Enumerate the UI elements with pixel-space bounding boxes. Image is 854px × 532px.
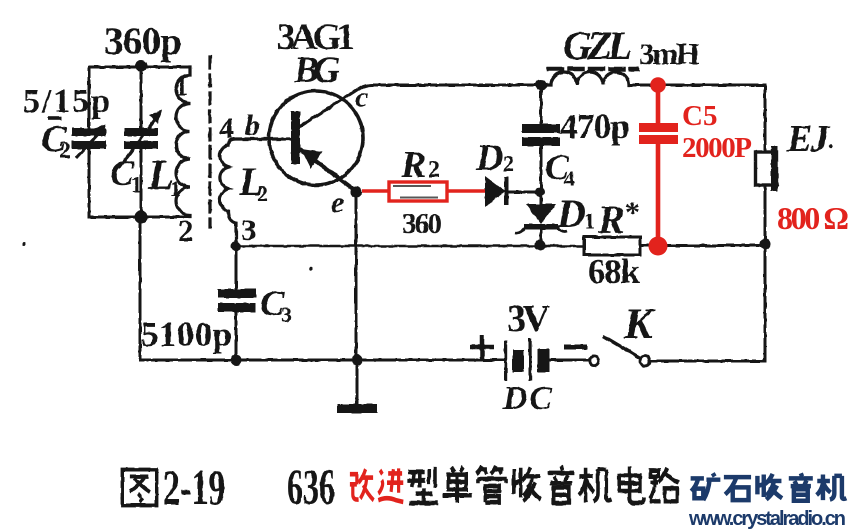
capacitor C2 plates bbox=[72, 128, 106, 136]
wire D2 to C4 node bbox=[508, 191, 538, 194]
wire emitter vertical bbox=[355, 192, 358, 360]
svg-text:D: D bbox=[475, 137, 503, 179]
caption glyph dan bbox=[443, 467, 472, 503]
wire EJ lower lead / right vertical bbox=[764, 185, 767, 360]
wire C4 branch bbox=[540, 85, 543, 192]
caption glyph xing bbox=[407, 467, 437, 503]
GZL core dashed bbox=[549, 67, 637, 72]
caption glyph yin bbox=[548, 466, 574, 503]
svg-text:K: K bbox=[623, 301, 656, 348]
caption glyph shou bbox=[514, 467, 541, 501]
svg-text:1: 1 bbox=[175, 72, 188, 101]
resistor R* box bbox=[584, 237, 640, 255]
battery cell 2 long plate bbox=[529, 338, 532, 381]
wire C3 branch bbox=[235, 246, 238, 360]
wire D1 leads bbox=[540, 192, 543, 243]
node ground junction bbox=[352, 355, 363, 366]
svg-text:GZL: GZL bbox=[563, 23, 632, 68]
logo glyph shou bbox=[757, 474, 782, 500]
speck dot after EJ bbox=[829, 144, 833, 148]
svg-text:1: 1 bbox=[170, 176, 181, 201]
switch K left contact bbox=[589, 356, 598, 365]
svg-text:R: R bbox=[597, 197, 625, 242]
svg-text:470p: 470p bbox=[560, 107, 630, 146]
svg-text:360: 360 bbox=[402, 208, 442, 240]
svg-text:5100p: 5100p bbox=[141, 315, 232, 354]
node C3 top bbox=[231, 241, 241, 251]
svg-text:3: 3 bbox=[241, 212, 257, 247]
caption glyph jin red bbox=[378, 468, 403, 502]
wire top rail GZL to right corner bbox=[629, 85, 765, 152]
wire tank bottom bbox=[89, 216, 190, 219]
node D2/C4/D1 junction bbox=[535, 187, 545, 197]
svg-text:1: 1 bbox=[584, 208, 595, 233]
svg-text:2: 2 bbox=[428, 157, 440, 183]
logo glyph shi bbox=[724, 477, 751, 500]
svg-text:C5: C5 bbox=[682, 100, 717, 132]
caption glyph gai red bbox=[350, 469, 374, 500]
wire battery to switch bbox=[550, 359, 589, 362]
diode D1 bbox=[526, 204, 556, 224]
caption glyph tu bbox=[122, 470, 156, 506]
speck noise dot left bbox=[22, 242, 26, 246]
inductor L1 bbox=[176, 67, 190, 217]
inductor L2 bbox=[220, 139, 293, 246]
wire mid rail left of R* bbox=[236, 245, 584, 248]
svg-text:e: e bbox=[331, 186, 344, 219]
transistor BG base bar bbox=[291, 111, 300, 164]
svg-text:R: R bbox=[400, 144, 426, 186]
transistor BG circle bbox=[269, 91, 363, 185]
wire emitter lead bbox=[301, 150, 356, 191]
svg-text:800 Ω: 800 Ω bbox=[777, 200, 849, 236]
svg-text:2000P: 2000P bbox=[682, 132, 752, 164]
svg-text:636: 636 bbox=[287, 460, 335, 515]
earphone EJ bbox=[756, 152, 777, 185]
capacitor C2 trimmer arrow bbox=[76, 130, 102, 158]
svg-text:2: 2 bbox=[178, 213, 194, 248]
node EJ bottom bbox=[760, 239, 771, 250]
inductor GZL bbox=[541, 72, 629, 85]
battery cell 1 long plate bbox=[504, 340, 507, 381]
speck dot mid bbox=[309, 267, 313, 271]
wire left vertical to bottom rail bbox=[139, 217, 142, 360]
transistor BG emitter arrow bbox=[301, 149, 322, 169]
minus sign bbox=[564, 345, 587, 350]
svg-text:*: * bbox=[625, 196, 640, 229]
plus sign bbox=[470, 335, 494, 359]
svg-text:360p: 360p bbox=[104, 20, 182, 63]
svg-text:D: D bbox=[556, 191, 586, 236]
svg-text:DC: DC bbox=[502, 380, 552, 417]
logo glyph ji2 bbox=[817, 475, 847, 501]
capacitor C1 arrow bbox=[119, 118, 156, 168]
wire C1 branch bbox=[140, 66, 143, 217]
caption glyph ji bbox=[579, 468, 611, 502]
svg-text:EJ: EJ bbox=[786, 118, 830, 160]
logo glyph yin bbox=[789, 473, 813, 501]
wire switch to right corner bbox=[651, 360, 765, 363]
capacitor C5 red bbox=[656, 85, 661, 246]
svg-text:4: 4 bbox=[219, 112, 234, 145]
svg-text:3: 3 bbox=[281, 302, 292, 327]
diode D2 bbox=[485, 176, 505, 207]
svg-text:2-19: 2-19 bbox=[163, 461, 225, 516]
svg-text:c: c bbox=[355, 81, 368, 114]
svg-text:2: 2 bbox=[59, 138, 71, 164]
battery cell 2 short plate bbox=[538, 349, 550, 372]
wire bottom rail left bbox=[140, 359, 505, 362]
wire mid rail right of R* bbox=[640, 244, 765, 247]
battery cell 1 short plate bbox=[513, 350, 525, 372]
node red top bbox=[650, 77, 666, 93]
capacitor C1 plates bbox=[124, 128, 158, 136]
svg-text:3V: 3V bbox=[507, 298, 551, 340]
svg-text:68k: 68k bbox=[588, 252, 641, 291]
caption glyph dian bbox=[619, 466, 644, 503]
resistor R2 red box bbox=[362, 189, 389, 193]
ground bar bbox=[337, 404, 377, 413]
svg-text:b: b bbox=[245, 109, 260, 142]
switch K lever bbox=[603, 336, 640, 358]
transformer core dashed bbox=[208, 57, 211, 227]
svg-text:1: 1 bbox=[131, 172, 142, 197]
svg-text:www.crystalradio.cn: www.crystalradio.cn bbox=[688, 508, 846, 530]
node tank bottom bbox=[135, 211, 148, 224]
node tank top bbox=[135, 60, 147, 72]
node GZL left / C4 top bbox=[536, 80, 547, 91]
node D1 bottom on mid rail bbox=[535, 240, 546, 251]
capacitor C4 plates bbox=[522, 124, 560, 133]
svg-text:3mH: 3mH bbox=[639, 36, 700, 71]
wire ground stem bbox=[356, 360, 359, 404]
caption glyph lu bbox=[650, 468, 679, 502]
node C3 bottom bbox=[231, 355, 242, 366]
wire tank top bbox=[89, 66, 190, 69]
node emitter bbox=[351, 187, 362, 198]
svg-text:2: 2 bbox=[257, 181, 268, 206]
svg-text:BG: BG bbox=[293, 50, 340, 91]
svg-text:2: 2 bbox=[503, 151, 514, 176]
wire collector to top rail bbox=[299, 85, 541, 127]
svg-text:4: 4 bbox=[564, 166, 575, 191]
svg-text:5/15p: 5/15p bbox=[23, 83, 110, 120]
wire C2 branch bbox=[88, 67, 91, 217]
switch K right contact bbox=[640, 356, 650, 366]
caption glyph guan bbox=[476, 466, 506, 502]
logo glyph kuang bbox=[691, 473, 721, 500]
node red bottom bbox=[649, 237, 668, 256]
capacitor C3 plates bbox=[218, 289, 256, 298]
